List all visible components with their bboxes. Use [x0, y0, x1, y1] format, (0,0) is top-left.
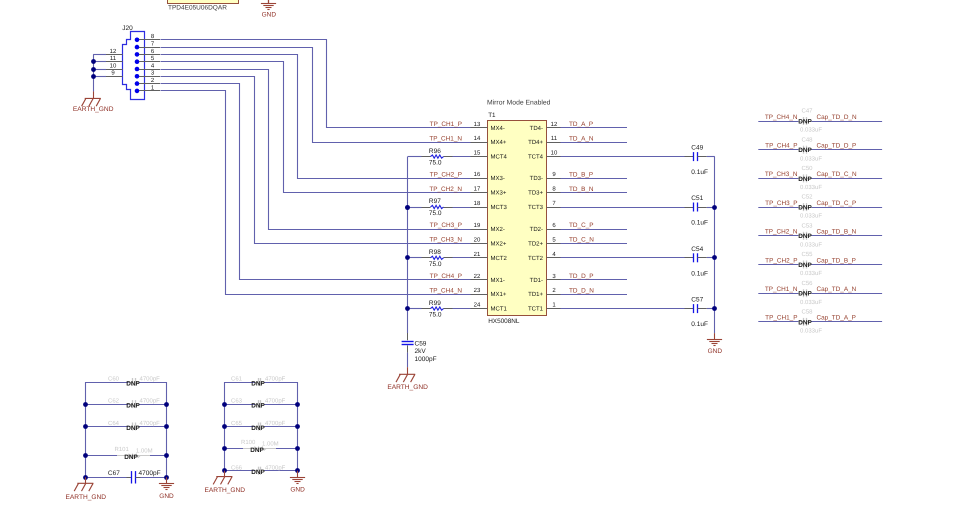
pin 3 of J20 [139, 70, 160, 77]
svg-text:C61: C61 [231, 376, 243, 383]
svg-text:TCT2: TCT2 [528, 255, 544, 262]
svg-text:75.0: 75.0 [429, 210, 442, 217]
junction C54 bus [712, 255, 717, 260]
svg-text:DNP: DNP [251, 380, 265, 387]
svg-text:12: 12 [551, 121, 558, 128]
svg-text:C52: C52 [801, 194, 813, 201]
net label TP_CH1_N [429, 135, 462, 142]
svg-text:0.1uF: 0.1uF [691, 321, 708, 328]
resistor R101 DNP 1.00M [86, 446, 167, 461]
svg-text:TP_CH1_N: TP_CH1_N [429, 135, 462, 142]
junction at pin 11 shield [91, 59, 96, 64]
pin 21 of T1 (MCT2) [471, 251, 508, 262]
svg-text:TP_CH3_N: TP_CH3_N [429, 237, 462, 244]
svg-text:DNP: DNP [798, 205, 812, 212]
wire TD_D_P [561, 279, 628, 281]
capacitor C49 0.1uF [561, 145, 715, 177]
svg-text:TP_CH3_P: TP_CH3_P [765, 200, 797, 207]
svg-text:8: 8 [552, 186, 556, 193]
net label TP_CH3_N [765, 171, 798, 178]
svg-text:TD_D_N: TD_D_N [569, 287, 594, 294]
svg-text:21: 21 [474, 251, 481, 258]
svg-text:C64: C64 [108, 420, 120, 427]
svg-text:TD4-: TD4- [530, 125, 543, 132]
svg-text:4: 4 [151, 62, 155, 69]
svg-text:MCT2: MCT2 [491, 255, 508, 262]
ground GND (ladder1) [159, 477, 174, 500]
wire TD_A_N [561, 142, 628, 144]
svg-text:13: 13 [474, 121, 481, 128]
svg-text:1: 1 [552, 302, 556, 309]
capacitor C66 DNP 4700pF [225, 464, 298, 476]
svg-text:TD_C_P: TD_C_P [569, 222, 594, 229]
svg-text:TP_CH4_N: TP_CH4_N [765, 114, 798, 121]
pin 11 of T1 (TD4+) [528, 135, 560, 146]
svg-text:TP_CH2_P: TP_CH2_P [765, 257, 797, 264]
svg-text:4700pF: 4700pF [265, 376, 286, 383]
wire TD_A_P [561, 127, 628, 129]
svg-text:R97: R97 [429, 198, 441, 205]
pin 2 of J20 [139, 77, 160, 84]
capacitor C59 2kV 1000pF [402, 333, 437, 367]
net label TP_CH2_P [430, 171, 462, 178]
svg-text:MX4+: MX4+ [491, 139, 507, 146]
wire J20 pin 2 to T1 (TP_CH4_P) [161, 84, 471, 280]
net label Cap_TD_A_N [817, 286, 857, 293]
svg-text:TD_B_N: TD_B_N [569, 186, 594, 193]
pin 3 of T1 (TD1-) [530, 273, 561, 284]
net label TP_CH4_N [429, 287, 462, 294]
capacitor C58 DNP 0.033uF [758, 309, 882, 335]
svg-text:TD3-: TD3- [530, 175, 543, 182]
svg-text:EARTH_GND: EARTH_GND [205, 487, 246, 494]
pin 8 of T1 (TD3+) [528, 186, 560, 197]
pin 7 of T1 (TCT3) [528, 200, 561, 211]
pin 16 of T1 (MX3-) [471, 171, 505, 182]
svg-text:Cap_TD_A_P: Cap_TD_A_P [817, 315, 856, 322]
svg-text:C50: C50 [801, 165, 813, 172]
svg-text:Cap_TD_C_N: Cap_TD_C_N [817, 171, 858, 178]
pin 24 of T1 (MCT1) [471, 302, 508, 313]
svg-text:DNP: DNP [126, 380, 140, 387]
svg-text:23: 23 [474, 287, 481, 294]
svg-text:4700pF: 4700pF [139, 470, 161, 477]
svg-text:3: 3 [151, 70, 155, 77]
junction at pin 10 shield [91, 67, 96, 72]
svg-text:24: 24 [474, 302, 481, 309]
svg-text:C48: C48 [801, 136, 813, 143]
resistor R98 [408, 249, 471, 268]
net label TD_A_N [569, 135, 594, 142]
svg-text:0.033uF: 0.033uF [800, 213, 822, 220]
svg-text:0.033uF: 0.033uF [800, 299, 822, 306]
svg-text:10: 10 [551, 150, 558, 157]
svg-text:EARTH_GND: EARTH_GND [66, 494, 107, 501]
svg-text:2: 2 [151, 77, 155, 84]
net label Cap_TD_B_N [817, 229, 857, 236]
svg-text:15: 15 [474, 150, 481, 157]
svg-text:Cap_TD_D_P: Cap_TD_D_P [817, 143, 857, 150]
svg-text:TP_CH4_P: TP_CH4_P [430, 273, 462, 280]
pin 9 of T1 (TD3-) [530, 171, 561, 182]
net label TP_CH3_N [429, 237, 462, 244]
net label TP_CH2_N [429, 186, 462, 193]
wire J20 pin 6 to T1 (TP_CH2_P) [161, 55, 471, 179]
net label TD_C_P [569, 222, 594, 229]
svg-text:R96: R96 [429, 148, 441, 155]
pin 14 of T1 (MX4+) [471, 135, 507, 146]
junction ladder1 left [83, 453, 88, 458]
capacitor C67 4700pF [86, 470, 167, 484]
svg-text:11: 11 [110, 55, 117, 62]
wire J20 shield pins to EARTH_GND [93, 54, 106, 91]
svg-text:TCT1: TCT1 [528, 306, 544, 313]
svg-text:3: 3 [552, 273, 556, 280]
svg-text:C59: C59 [415, 341, 427, 348]
junction R97 node [405, 205, 410, 210]
svg-text:17: 17 [474, 186, 481, 193]
svg-text:1000pF: 1000pF [415, 356, 437, 363]
svg-text:C67: C67 [108, 470, 120, 477]
svg-text:MX4-: MX4- [491, 125, 505, 132]
svg-text:C56: C56 [801, 280, 813, 287]
svg-text:DNP: DNP [251, 469, 265, 476]
ground EARTH_GND (ladder2) [205, 471, 246, 494]
pin 23 of T1 (MX1+) [471, 287, 507, 298]
svg-text:TCT4: TCT4 [528, 154, 544, 161]
wire TD_D_N [561, 294, 628, 296]
pin 7 of J20 [139, 41, 160, 48]
svg-text:12: 12 [110, 48, 117, 55]
svg-text:2kV: 2kV [415, 348, 427, 355]
wire TD_B_P [561, 178, 628, 180]
svg-text:C51: C51 [691, 195, 703, 202]
junction ladder2 right [295, 424, 300, 429]
capacitor C50 DNP 0.033uF [758, 165, 882, 191]
svg-text:C58: C58 [801, 309, 813, 316]
svg-text:DNP: DNP [798, 291, 812, 298]
junction ladder1 left [83, 475, 88, 480]
svg-text:TD_B_P: TD_B_P [569, 171, 593, 178]
svg-text:R99: R99 [429, 300, 441, 307]
svg-text:C54: C54 [691, 246, 703, 253]
pin 5 of J20 [139, 55, 160, 62]
svg-text:GND: GND [159, 493, 174, 500]
svg-text:T1: T1 [488, 112, 496, 119]
svg-text:TP_CH2_P: TP_CH2_P [430, 171, 462, 178]
svg-text:TD2-: TD2- [530, 226, 543, 233]
svg-text:7: 7 [151, 41, 155, 48]
junction ladder2 left [222, 468, 227, 473]
top TVS diode part body U? (cut off at top) [168, 0, 239, 4]
svg-text:DNP: DNP [798, 176, 812, 183]
capacitor C56 DNP 0.033uF [758, 280, 882, 306]
capacitor C53 DNP 0.033uF [758, 222, 882, 248]
svg-text:14: 14 [474, 135, 481, 142]
wire GND bus vertical [714, 157, 716, 334]
wire ladder2 left vertical [224, 382, 226, 471]
svg-text:EARTH_GND: EARTH_GND [387, 384, 428, 391]
svg-text:9: 9 [111, 70, 115, 77]
wire J20 pin 8 to T1 (TP_CH1_P) [161, 40, 471, 128]
svg-text:C65: C65 [231, 420, 243, 427]
svg-text:DNP: DNP [126, 425, 140, 432]
svg-text:11: 11 [551, 135, 558, 142]
resistor R100 DNP 1.00M [225, 439, 298, 454]
svg-text:TD3+: TD3+ [528, 190, 543, 197]
wire ladder2 right vertical [297, 382, 299, 471]
svg-text:MCT4: MCT4 [491, 154, 508, 161]
svg-text:EARTH_GND: EARTH_GND [73, 106, 114, 113]
svg-text:DNP: DNP [251, 425, 265, 432]
net label Cap_TD_B_P [817, 257, 856, 264]
junction C51 bus [712, 205, 717, 210]
svg-text:TCT3: TCT3 [528, 204, 544, 211]
pin 8 of J20 [139, 33, 160, 40]
svg-text:2: 2 [552, 287, 556, 294]
pin 12 of J20 [106, 48, 123, 55]
svg-text:75.0: 75.0 [429, 312, 442, 319]
svg-text:TP_CH3_N: TP_CH3_N [765, 171, 798, 178]
net label TP_CH1_N [765, 286, 798, 293]
pin 22 of T1 (MX1-) [471, 273, 505, 284]
svg-text:6: 6 [552, 222, 556, 229]
svg-text:TP_CH2_N: TP_CH2_N [429, 186, 462, 193]
svg-text:TD_A_P: TD_A_P [569, 121, 593, 128]
svg-text:MX3-: MX3- [491, 175, 505, 182]
svg-text:0.1uF: 0.1uF [691, 169, 708, 176]
capacitor C65 DNP 4700pF [225, 420, 298, 432]
svg-text:DNP: DNP [124, 454, 138, 461]
svg-text:MX2+: MX2+ [491, 240, 507, 247]
ground EARTH_GND (connector shield) [73, 91, 114, 113]
pin 4 of T1 (TCT2) [528, 251, 561, 262]
pin 10 of J20 [106, 62, 123, 69]
svg-text:C66: C66 [231, 464, 243, 471]
capacitor C64 DNP 4700pF [86, 420, 167, 432]
pin 6 of J20 [139, 48, 160, 55]
svg-text:C47: C47 [801, 108, 813, 115]
svg-text:TD_D_P: TD_D_P [569, 273, 594, 280]
svg-text:1.00M: 1.00M [262, 440, 279, 447]
junction ladder2 right [295, 446, 300, 451]
net label TP_CH3_P [765, 200, 797, 207]
junction ladder2 left [222, 424, 227, 429]
net label Cap_TD_A_P [817, 315, 856, 322]
svg-text:R100: R100 [241, 439, 256, 446]
pin 15 of T1 (MCT4) [471, 150, 508, 161]
svg-text:4700pF: 4700pF [265, 420, 286, 427]
junction ladder1 left [83, 424, 88, 429]
svg-text:C62: C62 [108, 398, 120, 405]
svg-text:DNP: DNP [798, 147, 812, 154]
svg-text:75.0: 75.0 [429, 261, 442, 268]
svg-text:DNP: DNP [798, 262, 812, 269]
junction ladder1 right [164, 424, 169, 429]
net label TP_CH2_N [765, 229, 798, 236]
net label Cap_TD_D_N [817, 114, 858, 121]
pin 17 of T1 (MX3+) [471, 186, 507, 197]
wire TD_C_P [561, 229, 628, 231]
net label TP_CH2_P [765, 257, 797, 264]
net label TP_CH1_P [765, 315, 797, 322]
net label TP_CH4_P [765, 143, 797, 150]
net label TD_D_P [569, 273, 594, 280]
svg-text:4700pF: 4700pF [140, 420, 161, 427]
wire ladder1 left vertical [85, 382, 87, 477]
svg-text:TP_CH1_N: TP_CH1_N [765, 286, 798, 293]
svg-text:Cap_TD_D_N: Cap_TD_D_N [817, 114, 858, 121]
wire ladder1 right vertical [166, 382, 168, 477]
svg-text:R98: R98 [429, 249, 441, 256]
junction ladder2 right [295, 402, 300, 407]
pin 9 of J20 [106, 70, 123, 77]
svg-text:20: 20 [474, 236, 481, 243]
wire TD_B_N [561, 192, 628, 194]
svg-text:TP_CH3_P: TP_CH3_P [430, 222, 462, 229]
svg-text:0.1uF: 0.1uF [691, 270, 708, 277]
net label TD_B_P [569, 171, 593, 178]
svg-text:GND: GND [262, 11, 277, 18]
pin 1 of T1 (TCT1) [528, 302, 561, 313]
svg-text:MX2-: MX2- [491, 226, 505, 233]
svg-text:R101: R101 [115, 446, 130, 453]
svg-text:Cap_TD_B_N: Cap_TD_B_N [817, 229, 857, 236]
svg-text:6: 6 [151, 48, 155, 55]
svg-text:Mirror Mode Enabled: Mirror Mode Enabled [487, 99, 551, 106]
pin 6 of T1 (TD2-) [530, 222, 561, 233]
svg-text:4: 4 [552, 251, 556, 258]
ground GND (top) [261, 0, 276, 18]
svg-text:Cap_TD_C_P: Cap_TD_C_P [817, 200, 857, 207]
pin 2 of T1 (TD1+) [528, 287, 560, 298]
svg-text:TD_C_N: TD_C_N [569, 237, 594, 244]
net label TD_B_N [569, 186, 594, 193]
ground EARTH_GND (below C59) [387, 367, 428, 391]
svg-text:4700pF: 4700pF [140, 376, 161, 383]
svg-text:0.033uF: 0.033uF [800, 155, 822, 162]
junction ladder2 left [222, 402, 227, 407]
pin 18 of T1 (MCT3) [471, 200, 508, 211]
svg-text:DNP: DNP [251, 403, 265, 410]
svg-text:C53: C53 [801, 222, 813, 229]
text Mirror Mode Enabled [487, 99, 551, 106]
svg-text:C49: C49 [691, 145, 703, 152]
svg-text:TP_CH1_P: TP_CH1_P [430, 121, 462, 128]
svg-text:DNP: DNP [798, 233, 812, 240]
ground EARTH_GND (ladder1) [66, 477, 107, 501]
pin 5 of T1 (TD2+) [528, 236, 560, 247]
svg-text:16: 16 [474, 171, 481, 178]
junction R97 bus [405, 205, 410, 210]
svg-text:TP_CH4_N: TP_CH4_N [429, 287, 462, 294]
svg-text:TPD4E05U06DQAR: TPD4E05U06DQAR [168, 4, 227, 11]
resistor R96 [408, 148, 471, 167]
svg-text:C55: C55 [801, 251, 813, 258]
net label Cap_TD_C_N [817, 171, 858, 178]
svg-text:DNP: DNP [798, 118, 812, 125]
svg-text:19: 19 [474, 222, 481, 229]
capacitor C51 0.1uF [561, 195, 715, 227]
svg-text:7: 7 [552, 200, 556, 207]
svg-text:MX1+: MX1+ [491, 291, 507, 298]
ground GND (right bus) [707, 333, 722, 355]
wire J20 pin 4 to T1 (TP_CH3_P) [161, 70, 471, 230]
junction ladder1 right [164, 453, 169, 458]
pin 11 of J20 [106, 55, 123, 62]
svg-text:MX3+: MX3+ [491, 190, 507, 197]
svg-text:0.033uF: 0.033uF [800, 241, 822, 248]
svg-text:HX5008NL: HX5008NL [488, 318, 520, 325]
value label TPD4E05U06DQAR [168, 4, 227, 11]
wire J20 pin 7 to T1 (TP_CH1_N) [161, 48, 471, 143]
net label TD_C_N [569, 237, 594, 244]
svg-text:MCT1: MCT1 [491, 306, 508, 313]
junction ladder1 right [164, 475, 169, 480]
svg-text:C63: C63 [231, 398, 243, 405]
junction ladder1 left [83, 402, 88, 407]
svg-text:75.0: 75.0 [429, 160, 442, 167]
svg-text:TD_A_N: TD_A_N [569, 135, 594, 142]
svg-text:0.033uF: 0.033uF [800, 328, 822, 335]
svg-text:0.033uF: 0.033uF [800, 270, 822, 277]
resistor R97 [408, 198, 471, 217]
junction R99 bus [405, 306, 410, 311]
svg-text:DNP: DNP [250, 447, 264, 454]
svg-text:22: 22 [474, 273, 481, 280]
capacitor C48 DNP 0.033uF [758, 136, 882, 162]
wire J20 pin 5 to T1 (TP_CH2_N) [161, 62, 471, 193]
capacitor C55 DNP 0.033uF [758, 251, 882, 277]
svg-text:4700pF: 4700pF [265, 464, 286, 471]
pin 4 of J20 [139, 62, 160, 69]
svg-text:9: 9 [552, 171, 556, 178]
svg-text:4700pF: 4700pF [140, 398, 161, 405]
svg-text:DNP: DNP [126, 403, 140, 410]
svg-text:0.1uF: 0.1uF [691, 220, 708, 227]
svg-text:GND: GND [290, 487, 305, 494]
capacitor C47 DNP 0.033uF [758, 108, 882, 134]
svg-text:DNP: DNP [798, 319, 812, 326]
svg-text:10: 10 [110, 62, 117, 69]
pin 19 of T1 (MX2-) [471, 222, 505, 233]
svg-text:TD2+: TD2+ [528, 240, 543, 247]
net label TP_CH4_N [765, 114, 798, 121]
capacitor C60 DNP 4700pF [86, 376, 167, 388]
svg-text:Cap_TD_B_P: Cap_TD_B_P [817, 257, 856, 264]
svg-text:C57: C57 [691, 297, 703, 304]
net label Cap_TD_D_P [817, 143, 857, 150]
svg-text:Cap_TD_A_N: Cap_TD_A_N [817, 286, 857, 293]
wire resistor bus vertical to C59 [407, 157, 409, 333]
pin 1 of J20 [139, 84, 160, 91]
svg-text:18: 18 [474, 200, 481, 207]
net label TD_D_N [569, 287, 594, 294]
net label TP_CH3_P [430, 222, 462, 229]
svg-text:TD1+: TD1+ [528, 291, 543, 298]
svg-text:C60: C60 [108, 376, 120, 383]
capacitor C57 0.1uF [561, 297, 715, 329]
transformer T1 HX5008NL [488, 112, 547, 325]
junction ladder2 left [222, 446, 227, 451]
capacitor C61 DNP 4700pF [225, 376, 298, 388]
net label TP_CH4_P [430, 273, 462, 280]
junction at pin 9 shield [91, 74, 96, 79]
junction R98 bus [405, 255, 410, 260]
ground GND (ladder2) [290, 471, 305, 494]
pin 13 of T1 (MX4-) [471, 121, 505, 132]
capacitor C52 DNP 0.033uF [758, 194, 882, 220]
